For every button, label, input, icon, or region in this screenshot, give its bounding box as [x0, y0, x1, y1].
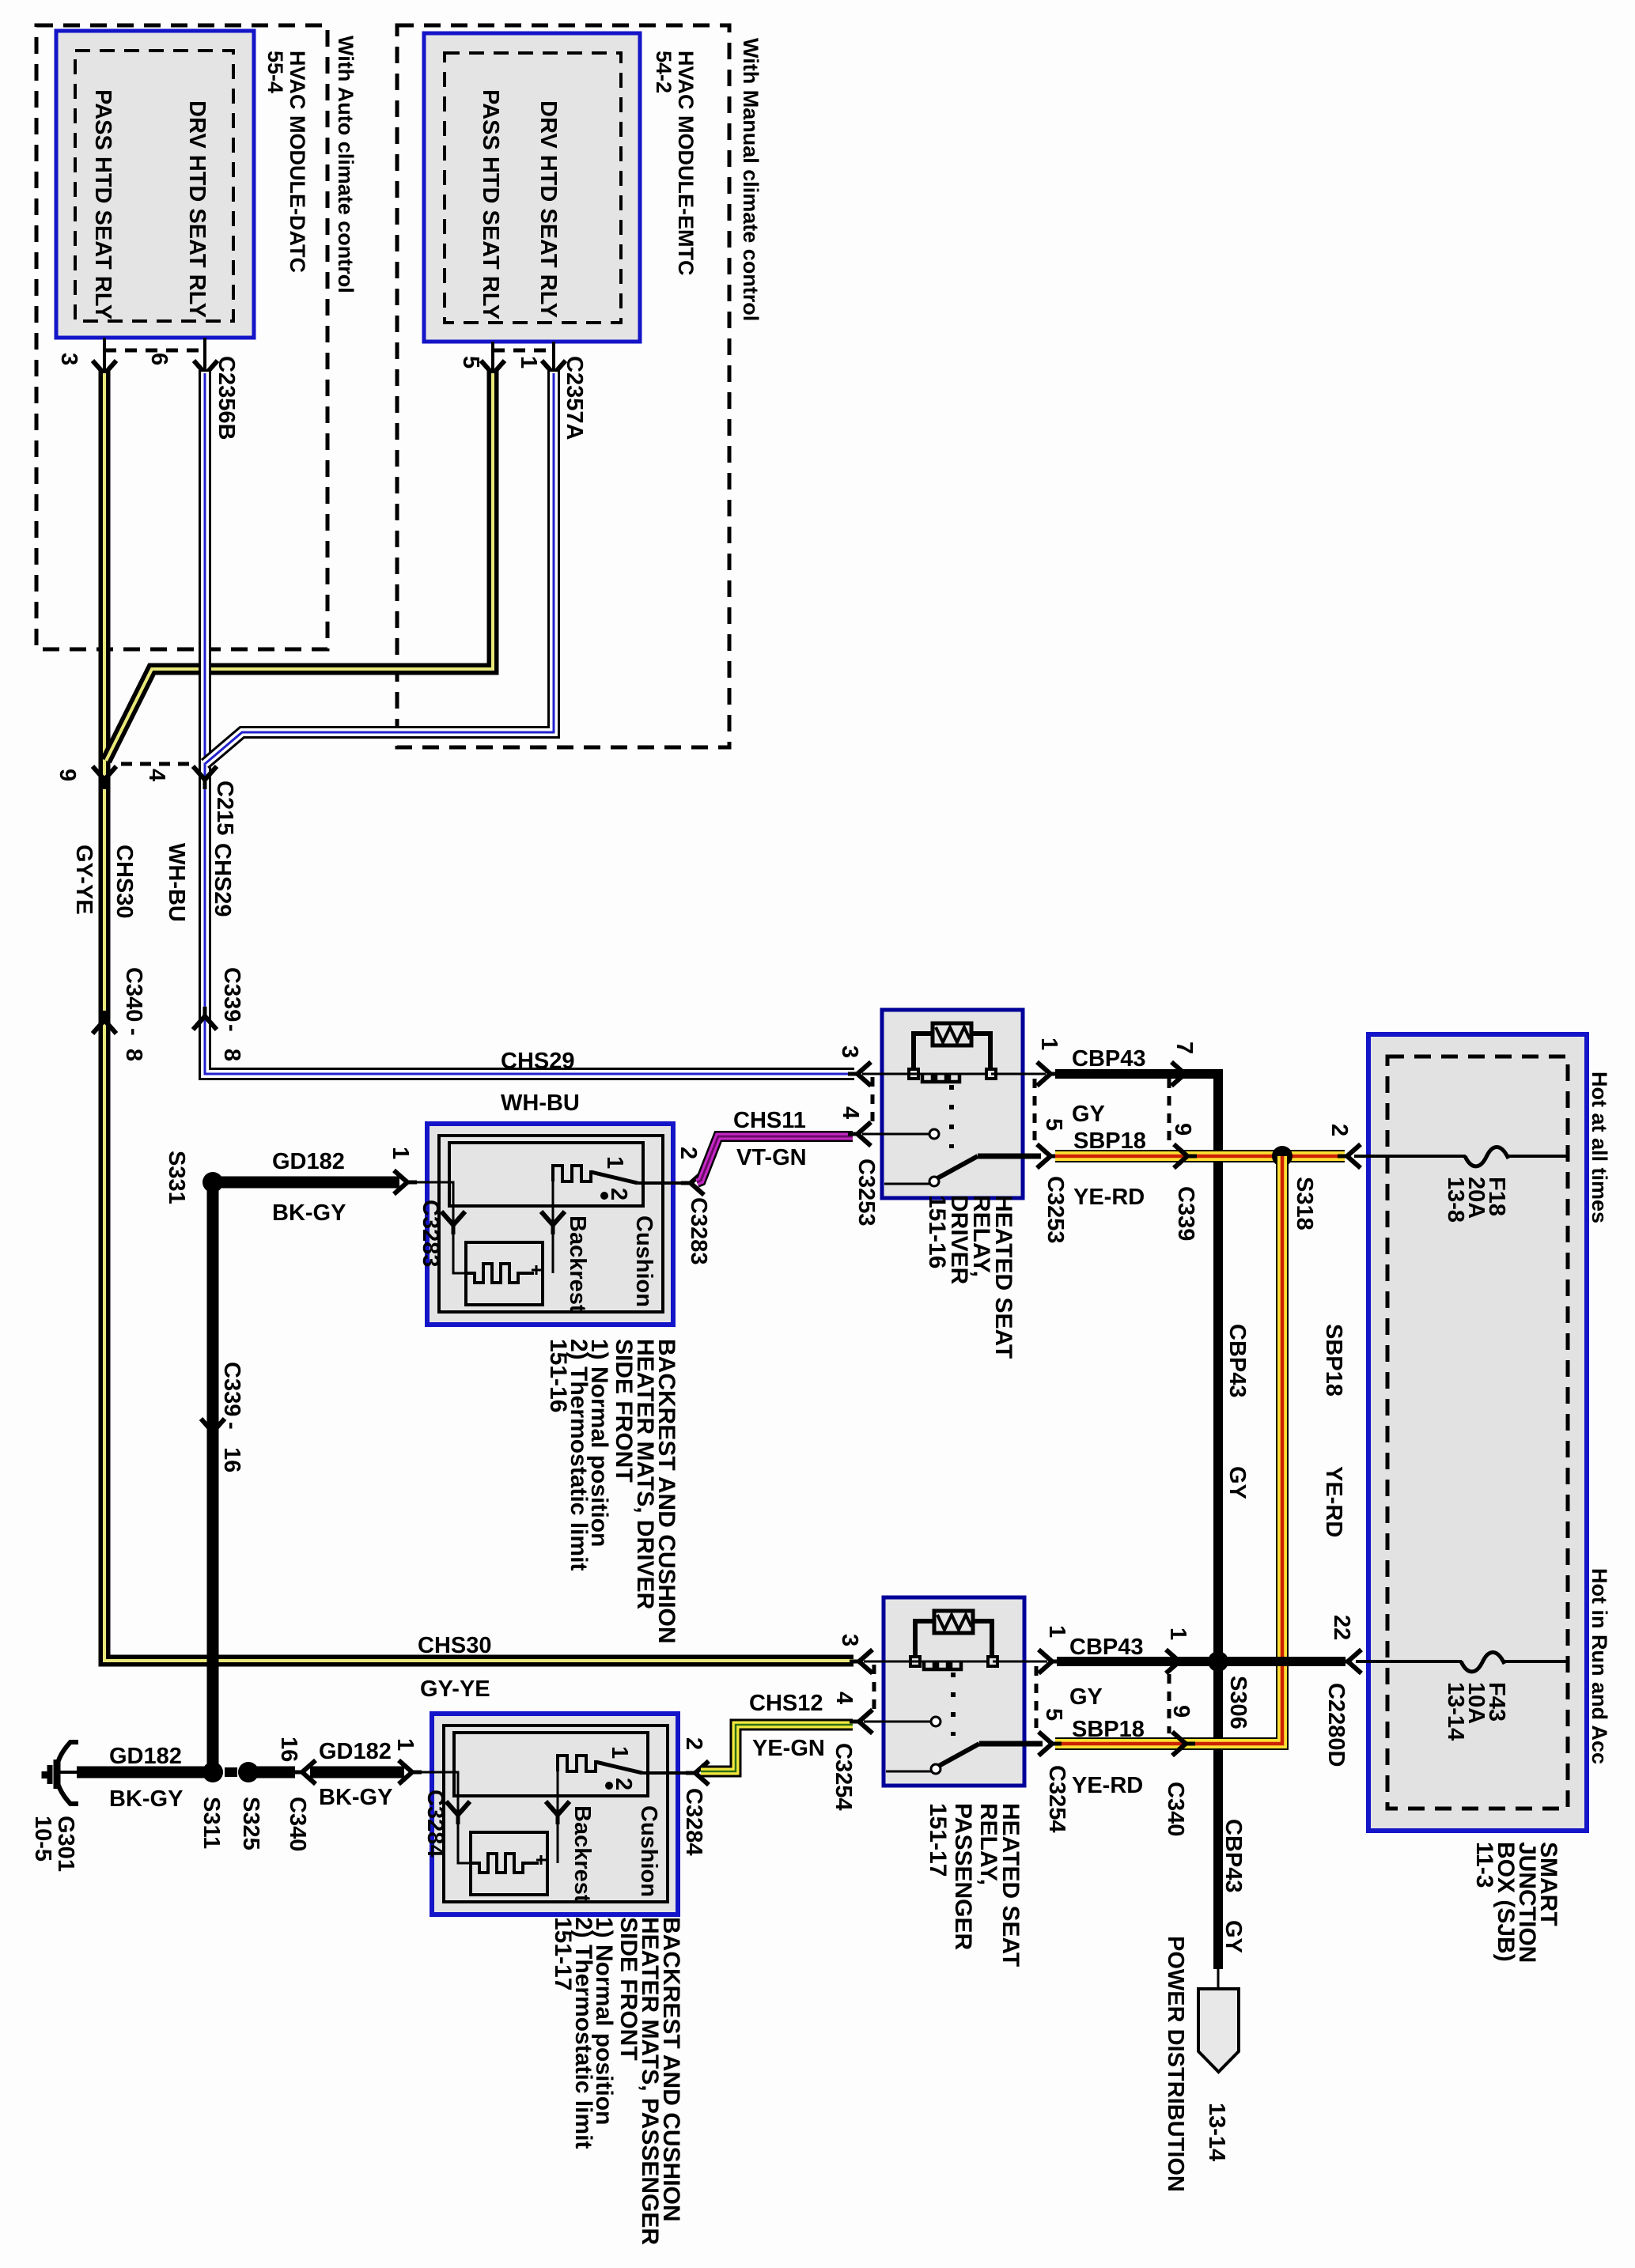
- svg-text:C339: C339: [219, 967, 244, 1022]
- svg-text:CBP43: CBP43: [1072, 1046, 1146, 1072]
- svg-text:PASSENGER: PASSENGER: [950, 1803, 976, 1950]
- svg-text:10-5: 10-5: [30, 1816, 55, 1862]
- passenger relay pin 4 arrow: [850, 1710, 872, 1733]
- svg-text:6: 6: [146, 353, 172, 365]
- passenger mats pin 1 arrow: [399, 1760, 422, 1784]
- svg-text:YE-RD: YE-RD: [1073, 1185, 1145, 1210]
- svg-text:SIDE FRONT: SIDE FRONT: [611, 1339, 637, 1483]
- fuse F43 symbol: [1461, 1652, 1504, 1671]
- svg-text:3: 3: [837, 1634, 862, 1646]
- svg-text:GY-YE: GY-YE: [71, 845, 97, 915]
- svg-text:16: 16: [219, 1447, 244, 1472]
- svg-text:2: 2: [606, 1188, 631, 1200]
- svg-text:SBP18: SBP18: [1073, 1128, 1146, 1154]
- svg-text:CBP43: CBP43: [1221, 1819, 1246, 1893]
- svg-text:CHS12: CHS12: [749, 1691, 823, 1716]
- connector C339 dashes (pins 7/9): [1168, 1079, 1171, 1147]
- svg-text:C339: C339: [1173, 1186, 1198, 1241]
- svg-text:2: 2: [681, 1737, 706, 1750]
- dash between S311 and S325: [225, 1767, 237, 1777]
- svg-text:CHS30: CHS30: [418, 1633, 492, 1658]
- driver relay pin 5 arrow: [1037, 1144, 1060, 1168]
- svg-text:13-14: 13-14: [1204, 2103, 1229, 2161]
- wire SBP18 YE-RD: S318 down and to passenger relay pin 5: [1055, 1156, 1282, 1744]
- svg-text:GD182: GD182: [109, 1744, 182, 1769]
- svg-text:GY-YE: GY-YE: [420, 1676, 490, 1702]
- svg-text:1: 1: [388, 1147, 413, 1159]
- component: BACKREST AND CUSHION HEATER MATS, DRIVER SIDE FRONT: [414, 1124, 687, 1325]
- inline connector C339 pin 9 chevron: [1174, 1144, 1197, 1168]
- C215 pin 9 arrow: [93, 766, 116, 789]
- pin2 internal stub: [638, 1181, 687, 1185]
- SJB F43 wire: [1356, 1660, 1462, 1663]
- wire CHS11 VT-GN: driver relay pin 4 to driver mats pin 2: [697, 1136, 853, 1182]
- mat connector arrows inside: [441, 1211, 465, 1234]
- svg-text:C339: C339: [219, 1362, 244, 1416]
- svg-text:151-16: 151-16: [924, 1195, 950, 1268]
- svg-text:GY: GY: [1072, 1102, 1105, 1127]
- svg-text:Hot in Run and Acc: Hot in Run and Acc: [1588, 1568, 1611, 1764]
- svg-text:C2356B: C2356B: [214, 356, 239, 440]
- svg-text:C3253: C3253: [853, 1159, 879, 1226]
- inline connector C340 pin 1 chevron: [1166, 1650, 1189, 1673]
- svg-text:CHS30: CHS30: [112, 845, 137, 919]
- svg-text:9: 9: [1168, 1705, 1194, 1718]
- svg-text:SIDE FRONT: SIDE FRONT: [615, 1917, 642, 2061]
- svg-text:S325: S325: [238, 1797, 263, 1850]
- relay pin1 line from coil: [991, 1073, 1046, 1075]
- svg-text:GY: GY: [1221, 1920, 1246, 1953]
- driver mats pin 1 arrow: [394, 1170, 417, 1194]
- wire harness dashed box: With Auto climate control: [36, 25, 327, 649]
- connector dashes at DATC pins 3/6: [104, 349, 206, 353]
- svg-text:11-3: 11-3: [1471, 1842, 1497, 1888]
- relay coil feed line pin3 to coil: [862, 1073, 988, 1075]
- relay K1: HEATED SEAT RELAY, DRIVER: [862, 1010, 1046, 1198]
- backrest heater element: [466, 1264, 534, 1283]
- connector dashes right: [1033, 1079, 1037, 1147]
- module U1: HVAC MODULE-EMTC box: [424, 33, 640, 342]
- splice S311: [202, 1762, 223, 1782]
- wire CBP43 GY: passenger relay pin 1 to S306 to SJB pin 22: [1057, 1657, 1345, 1666]
- component: BACKREST AND CUSHION HEATER MATS, PASSENGER SIDE FRONT: [418, 1714, 692, 1915]
- inline connector C339 pin 16 chevron: [201, 1419, 225, 1442]
- svg-text:GY: GY: [1224, 1466, 1250, 1499]
- passenger mats pin 2 arrow: [686, 1761, 709, 1785]
- svg-text:VT-GN: VT-GN: [736, 1145, 807, 1170]
- svg-text:C3254: C3254: [1044, 1765, 1069, 1832]
- thermostat switch arm: [591, 1172, 638, 1183]
- svg-text:3: 3: [56, 353, 81, 365]
- ground G301 symbol: [44, 1742, 87, 1804]
- component: SMART JUNCTION BOX (SJB): [1368, 1034, 1587, 1831]
- driver relay pin 4 arrow: [848, 1122, 871, 1146]
- wire CHS30 GY-YE: EMTC pin 5 branch: [106, 342, 493, 761]
- svg-text:1: 1: [602, 1156, 627, 1169]
- driver relay pin 3 arrow: [848, 1062, 871, 1086]
- wire CHS29 WH-BU: EMTC pin 1 branch: [205, 342, 554, 764]
- svg-text:SBP18: SBP18: [1321, 1324, 1346, 1397]
- svg-text:2: 2: [1327, 1124, 1352, 1136]
- svg-text:WH-BU: WH-BU: [501, 1091, 580, 1116]
- svg-text:16: 16: [276, 1737, 301, 1762]
- connector C215 dashes: [121, 762, 190, 766]
- svg-text:C340: C340: [121, 967, 146, 1022]
- svg-text:G301: G301: [53, 1816, 78, 1872]
- wire GD182 BK-GY: C340 to passenger mats pin 1: [310, 1767, 404, 1778]
- splice S331: [202, 1172, 223, 1193]
- passenger relay pin 1 arrow: [1039, 1650, 1062, 1673]
- SJB pin 22 arrow: [1338, 1650, 1361, 1673]
- svg-text:C3253: C3253: [1043, 1176, 1068, 1243]
- wire GD182 BK-GY: ground to S311: [77, 1767, 213, 1778]
- svg-text:151-17: 151-17: [925, 1803, 951, 1877]
- svg-text:C340: C340: [285, 1797, 310, 1851]
- svg-text:GD182: GD182: [319, 1739, 392, 1764]
- svg-text:4: 4: [144, 769, 169, 781]
- splice S306: [1208, 1651, 1228, 1672]
- wire harness dashed box: With Manual climate control: [397, 25, 729, 747]
- svg-text:CBP43: CBP43: [1224, 1324, 1250, 1398]
- svg-text:Backrest: Backrest: [565, 1215, 590, 1313]
- connector dashes at EMTC pins 5/1: [493, 349, 554, 353]
- svg-text:1: 1: [1165, 1627, 1190, 1640]
- svg-text:4: 4: [831, 1692, 857, 1704]
- svg-text:5: 5: [1041, 1118, 1066, 1131]
- driver mats pin 2 arrow: [681, 1171, 704, 1195]
- svg-text:C215: C215: [212, 781, 237, 835]
- svg-text:54-2: 54-2: [652, 51, 676, 93]
- svg-text:S311: S311: [199, 1797, 224, 1849]
- inline connector C339 pin 8 chevron on CHS29: [193, 1007, 217, 1030]
- connector C340 dashes (pins 1/9): [1168, 1674, 1171, 1733]
- svg-text:DRV HTD SEAT RLY: DRV HTD SEAT RLY: [184, 100, 210, 318]
- passenger relay pin 3 arrow: [850, 1650, 872, 1673]
- svg-text:PASS HTD SEAT RLY: PASS HTD SEAT RLY: [90, 89, 115, 319]
- passenger relay pin 5 arrow: [1039, 1732, 1062, 1756]
- svg-text:YE-RD: YE-RD: [1072, 1773, 1143, 1798]
- splice S318: [1272, 1146, 1292, 1166]
- svg-text:YE-GN: YE-GN: [752, 1736, 825, 1761]
- svg-text:22: 22: [1329, 1615, 1354, 1640]
- inline connector C340 pin 16 chevron: [293, 1760, 316, 1784]
- cushion thermostat element: [553, 1166, 591, 1181]
- svg-text:3: 3: [837, 1045, 862, 1058]
- svg-text:S331: S331: [164, 1151, 189, 1204]
- pin 6 (DATC) arrow: [194, 361, 218, 384]
- plus mark backrest element: [532, 1265, 541, 1275]
- svg-text:WH-BU: WH-BU: [164, 843, 189, 922]
- svg-text:GY: GY: [1069, 1684, 1103, 1710]
- svg-text:CBP43: CBP43: [1069, 1635, 1144, 1660]
- module U2: HVAC MODULE-DATC box: [56, 31, 254, 338]
- driver relay pin 1 arrow: [1037, 1062, 1060, 1086]
- svg-text:9: 9: [1170, 1123, 1195, 1136]
- SJB F18 wire: [1354, 1155, 1466, 1158]
- svg-text:S318: S318: [1292, 1177, 1317, 1230]
- inline connector C340 pin 8 chevron on CHS30: [93, 1011, 116, 1034]
- svg-text:151-16: 151-16: [545, 1339, 571, 1412]
- svg-text:8: 8: [121, 1049, 146, 1061]
- svg-text:C3283: C3283: [418, 1200, 443, 1267]
- pin 5 (EMTC) arrow: [481, 361, 505, 384]
- svg-text:1: 1: [1036, 1038, 1062, 1050]
- svg-text:CHS11: CHS11: [733, 1108, 806, 1133]
- relay K2: HEATED SEAT RELAY, PASSENGER: [864, 1597, 1047, 1786]
- wire CHS29 WH-BU: DATC pin 6 vertical run: [205, 338, 854, 1074]
- svg-text:HVAC MODULE-DATC: HVAC MODULE-DATC: [286, 51, 309, 273]
- C215 pin 4 arrow: [193, 766, 217, 789]
- inline connector C340 pin 9 chevron: [1172, 1732, 1195, 1756]
- svg-text:8: 8: [219, 1049, 244, 1061]
- svg-text:7: 7: [1171, 1041, 1197, 1054]
- svg-text:2: 2: [676, 1147, 701, 1159]
- power distribution arrow symbol: [1198, 1989, 1239, 2072]
- svg-text:1: 1: [392, 1738, 418, 1751]
- wire GD182: S325 to C340: [248, 1767, 295, 1778]
- svg-text:4: 4: [838, 1106, 863, 1119]
- relay pin4 line to normally-open contact: [862, 1133, 930, 1136]
- relay output to pin 5: [978, 1154, 1041, 1159]
- svg-text:HVAC MODULE-EMTC: HVAC MODULE-EMTC: [674, 51, 698, 275]
- relay coil: [922, 1074, 959, 1082]
- inline connector C339 pin 7 chevron: [1171, 1062, 1194, 1086]
- splice S325: [238, 1762, 259, 1782]
- relay common contact stub: [884, 1183, 929, 1185]
- wire CHS30 GY-YE: DATC pin 3 vertical run: [104, 338, 853, 1661]
- svg-text:With Manual climate control: With Manual climate control: [739, 38, 763, 321]
- wire SBP18 YE-RD: driver relay pin 5 to SJB pin 2: [1055, 1150, 1345, 1162]
- svg-text:1: 1: [1044, 1625, 1069, 1638]
- svg-text:C3284: C3284: [422, 1790, 448, 1857]
- svg-text:Hot at all times: Hot at all times: [1588, 1072, 1611, 1223]
- svg-text:9: 9: [55, 769, 80, 781]
- svg-text:POWER DISTRIBUTION: POWER DISTRIBUTION: [1163, 1936, 1188, 2192]
- svg-text:BK-GY: BK-GY: [319, 1785, 392, 1810]
- mats internal wiring pin1 branch: [414, 1182, 466, 1273]
- svg-text:1: 1: [516, 356, 541, 369]
- svg-text:55-4: 55-4: [263, 51, 287, 93]
- svg-text:151-17: 151-17: [550, 1917, 576, 1990]
- svg-text:C2280D: C2280D: [1323, 1683, 1349, 1767]
- pin 3 (DATC) arrow: [93, 361, 116, 384]
- fuse F18 symbol: [1465, 1147, 1508, 1166]
- SJB pin 2 arrow: [1338, 1144, 1361, 1168]
- svg-text:C3254: C3254: [831, 1743, 856, 1810]
- svg-text:Cushion: Cushion: [631, 1215, 657, 1307]
- svg-text:GD182: GD182: [272, 1149, 345, 1174]
- wire GD182 BK-GY: S331 to driver mats pin 1: [213, 1177, 399, 1189]
- svg-text:CHS29: CHS29: [210, 843, 235, 917]
- svg-text:-: -: [121, 1028, 146, 1036]
- svg-text:SBP18: SBP18: [1072, 1717, 1145, 1742]
- svg-text:C2357A: C2357A: [562, 356, 587, 440]
- wire GD182: S331 down to S311: [207, 1182, 219, 1772]
- svg-text:RELAY,: RELAY,: [975, 1803, 1001, 1885]
- svg-text:PASS HTD SEAT RLY: PASS HTD SEAT RLY: [478, 89, 503, 319]
- relay switch arm: [937, 1156, 978, 1178]
- wire CBP43 GY: driver relay pin 1 to corner and down: [1055, 1074, 1218, 1969]
- svg-text:S306: S306: [1225, 1676, 1251, 1729]
- svg-text:-: -: [219, 1422, 244, 1430]
- svg-text:C3283: C3283: [686, 1197, 711, 1264]
- svg-text:CHS29: CHS29: [501, 1049, 575, 1074]
- svg-text:5: 5: [458, 356, 483, 369]
- pin 1 (EMTC) arrow: [542, 361, 566, 384]
- svg-text:-: -: [219, 1024, 244, 1032]
- svg-text:C340: C340: [1163, 1782, 1188, 1836]
- svg-text:DRV HTD SEAT RLY: DRV HTD SEAT RLY: [536, 100, 561, 318]
- mats internal vertical to cushion thermostat: [552, 1172, 554, 1273]
- svg-text:13-14: 13-14: [1443, 1682, 1468, 1741]
- svg-text:5: 5: [1041, 1708, 1066, 1721]
- switch contact dot: [600, 1192, 608, 1200]
- svg-text:With Auto climate control: With Auto climate control: [334, 36, 358, 293]
- svg-text:YE-RD: YE-RD: [1321, 1466, 1346, 1537]
- wire CHS12 YE-GN: passenger relay pin 4 to passenger mats pin 2: [701, 1725, 853, 1771]
- relay resistor (parallel): [914, 1034, 933, 1068]
- svg-text:C3284: C3284: [681, 1788, 706, 1855]
- svg-text:BK-GY: BK-GY: [109, 1786, 183, 1812]
- svg-text:BK-GY: BK-GY: [272, 1200, 346, 1226]
- svg-text:13-8: 13-8: [1443, 1177, 1468, 1223]
- relay armature dotted line: [949, 1085, 954, 1148]
- connector dashes left (C3253): [871, 1077, 875, 1128]
- lead to power distribution arrow: [1217, 1969, 1220, 1990]
